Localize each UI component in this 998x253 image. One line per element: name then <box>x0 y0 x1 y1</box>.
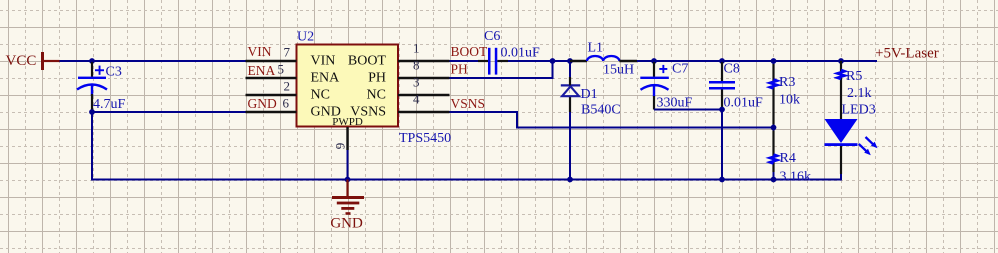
LED LED3 <box>825 119 878 155</box>
L1 designator <box>588 41 604 56</box>
C7 value 330uF <box>657 96 693 111</box>
capacitor C3 <box>77 62 107 112</box>
pin 6 (GND) <box>246 96 297 113</box>
svg-text:0.01uF: 0.01uF <box>501 45 541 60</box>
svg-text:PH: PH <box>368 71 386 86</box>
pin name GND <box>311 105 341 120</box>
U2 designator <box>297 30 314 45</box>
svg-text:10k: 10k <box>779 93 800 108</box>
L1 value 15uH <box>603 63 634 78</box>
pin 4 (VSNS) <box>398 92 450 113</box>
svg-text:B540C: B540C <box>581 103 621 118</box>
svg-text:3.16k: 3.16k <box>780 170 812 185</box>
wire L1 to +5V-Laser port (y=61) <box>637 60 877 62</box>
svg-text:PH: PH <box>451 62 469 77</box>
pin 7 (VIN) <box>246 45 297 62</box>
svg-text:LED3: LED3 <box>842 103 876 118</box>
pin 3 (NC) <box>398 75 450 96</box>
svg-text:U2: U2 <box>297 30 314 45</box>
svg-text:3: 3 <box>413 75 420 90</box>
R5 value 2.1k <box>847 86 872 101</box>
C7 designator <box>672 62 688 77</box>
R4 value 3.16k <box>780 170 812 185</box>
junction C7/C8 bottom node <box>719 107 725 113</box>
pin name NC right <box>367 88 386 103</box>
pin name ENA <box>311 71 341 86</box>
net label PH <box>451 62 469 77</box>
svg-text:R5: R5 <box>846 69 862 84</box>
svg-text:C6: C6 <box>484 29 500 44</box>
wire D1 column <box>569 61 571 180</box>
U2 value TPS5450 <box>399 131 451 146</box>
svg-text:2.1k: 2.1k <box>847 86 872 101</box>
svg-text:VIN: VIN <box>311 54 336 69</box>
junction pin9 to bottom rail <box>345 177 351 183</box>
pin name PWPD <box>332 116 363 128</box>
svg-text:BOOT: BOOT <box>348 54 387 69</box>
svg-text:TPS5450: TPS5450 <box>399 131 451 146</box>
resistor R3 <box>770 80 777 89</box>
svg-text:330uF: 330uF <box>657 96 693 111</box>
wire BOOT pin to C6 <box>450 60 479 62</box>
R4 designator <box>780 151 796 166</box>
wire VSNS to divider <box>450 112 774 128</box>
wire R3/R4 column <box>773 61 775 180</box>
C3 value 4.7uF <box>93 97 126 112</box>
svg-text:VSNS: VSNS <box>451 96 486 111</box>
junction BOOT/PH node <box>550 58 556 64</box>
junction at R5 top <box>838 58 844 64</box>
net label VIN <box>248 44 272 59</box>
junction at D1 bottom <box>567 177 573 183</box>
capacitor C6 <box>478 48 508 75</box>
wire pin9 to rail <box>347 150 349 180</box>
svg-text:5: 5 <box>278 62 285 77</box>
C6 value 0.01uF <box>501 45 541 60</box>
pin 5 (ENA) <box>246 62 297 79</box>
svg-text:C8: C8 <box>724 62 740 77</box>
capacitor C8 <box>709 62 735 110</box>
svg-text:4: 4 <box>413 92 420 107</box>
junction at D1 top <box>567 58 573 64</box>
svg-text:C3: C3 <box>106 65 122 80</box>
svg-text:GND: GND <box>248 96 277 111</box>
pin 1 (BOOT) <box>398 41 450 62</box>
junction at R4 bottom <box>771 177 777 183</box>
svg-text:7: 7 <box>284 45 291 60</box>
wire bottom GND rail (y=179.5) <box>92 112 841 180</box>
svg-text:NC: NC <box>367 88 386 103</box>
junction at C8 top <box>719 58 725 64</box>
pin name NC left <box>311 88 330 103</box>
svg-text:R3: R3 <box>779 75 795 90</box>
junction at C7 top <box>651 58 657 64</box>
wire C3 column to bottom rail <box>91 112 93 180</box>
wire C8 node to bottom rail <box>721 110 723 180</box>
svg-text:L1: L1 <box>588 41 604 56</box>
net label BOOT <box>451 44 489 59</box>
svg-text:9: 9 <box>333 143 348 150</box>
wire R5/LED column <box>840 61 842 174</box>
wire C7 bottom link to C8 (y=109.5) <box>654 109 722 111</box>
IC U2 body (TPS5450 buck regulator) <box>297 45 399 127</box>
svg-text:NC: NC <box>311 88 330 103</box>
svg-text:8: 8 <box>413 58 420 73</box>
wire PH pin row (y=78) <box>450 61 553 78</box>
svg-text:4.7uF: 4.7uF <box>93 97 126 112</box>
pin 8 (PH) <box>398 58 450 79</box>
pin 9 (PWPD) <box>333 127 348 150</box>
svg-text:PWPD: PWPD <box>332 116 363 128</box>
resistor R4 <box>770 155 777 164</box>
C8 value 0.01uF <box>724 96 764 111</box>
pin name PH <box>368 71 386 86</box>
svg-text:15uH: 15uH <box>603 63 634 78</box>
GND port text <box>330 216 363 232</box>
junction at C8 bottom rail <box>719 177 725 183</box>
C8 designator <box>724 62 740 77</box>
svg-text:1: 1 <box>413 41 420 56</box>
LED3 designator <box>842 103 876 118</box>
D1 value B540C <box>581 103 621 118</box>
C6 designator <box>484 29 500 44</box>
svg-text:BOOT: BOOT <box>451 44 489 59</box>
power port VCC <box>6 52 60 70</box>
inductor L1 <box>570 56 637 61</box>
svg-text:GND: GND <box>330 216 363 232</box>
svg-text:6: 6 <box>283 96 290 111</box>
R3 designator <box>779 75 795 90</box>
svg-text:ENA: ENA <box>248 63 276 78</box>
power port +5V-Laser <box>875 45 939 61</box>
svg-text:R4: R4 <box>780 151 796 166</box>
pin name VIN <box>311 54 336 69</box>
net label GND <box>248 96 277 111</box>
svg-text:D1: D1 <box>581 87 598 102</box>
net label VSNS <box>451 96 486 111</box>
net label ENA <box>248 63 276 78</box>
resistor R5 <box>837 70 844 79</box>
D1 designator <box>581 87 598 102</box>
junction at C3 bottom <box>89 109 95 115</box>
svg-text:0.01uF: 0.01uF <box>724 96 764 111</box>
ground GND power port <box>332 180 364 215</box>
svg-text:+5V-Laser: +5V-Laser <box>875 45 939 61</box>
R5 designator <box>846 69 862 84</box>
wire C6 to PH junction (y=61) <box>508 60 570 62</box>
wire VCC rail to U2 VIN (y=61) <box>60 60 246 62</box>
svg-text:VIN: VIN <box>248 44 272 59</box>
wire C3 bottom to U2 GND pin (y=112) <box>92 111 246 113</box>
pin name BOOT <box>348 54 387 69</box>
junction at C3 top <box>89 58 95 64</box>
svg-text:C7: C7 <box>672 62 688 77</box>
svg-text:ENA: ENA <box>311 71 341 86</box>
R3 value 10k <box>779 93 800 108</box>
pin 2 (NC) <box>246 79 297 96</box>
svg-text:VCC: VCC <box>6 53 37 69</box>
pin name VSNS <box>350 105 386 120</box>
junction VSNS/divider <box>771 125 777 131</box>
capacitor C7 <box>640 62 669 110</box>
svg-text:2: 2 <box>284 79 291 94</box>
junction at R3 top <box>771 58 777 64</box>
diode D1 <box>561 77 580 96</box>
C3 designator <box>106 65 122 80</box>
